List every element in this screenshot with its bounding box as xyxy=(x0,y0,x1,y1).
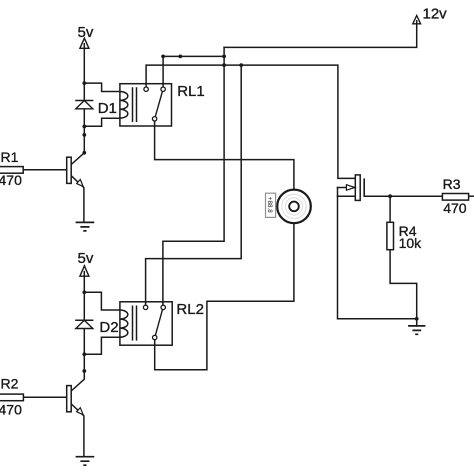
svg-text:+88.8: +88.8 xyxy=(266,197,273,213)
svg-text:5v: 5v xyxy=(78,24,94,41)
svg-text:RL2: RL2 xyxy=(176,301,204,318)
svg-text:12v: 12v xyxy=(423,6,448,23)
svg-text:R3: R3 xyxy=(443,176,461,192)
svg-text:RL1: RL1 xyxy=(177,83,205,100)
svg-text:R2: R2 xyxy=(1,376,19,392)
svg-text:D1: D1 xyxy=(98,100,117,117)
svg-text:470: 470 xyxy=(0,401,22,417)
svg-text:470: 470 xyxy=(443,200,467,216)
svg-text:R1: R1 xyxy=(1,149,19,165)
svg-text:5v: 5v xyxy=(78,250,94,267)
svg-text:470: 470 xyxy=(0,172,22,188)
svg-text:D2: D2 xyxy=(99,319,118,336)
svg-text:10k: 10k xyxy=(399,235,423,251)
